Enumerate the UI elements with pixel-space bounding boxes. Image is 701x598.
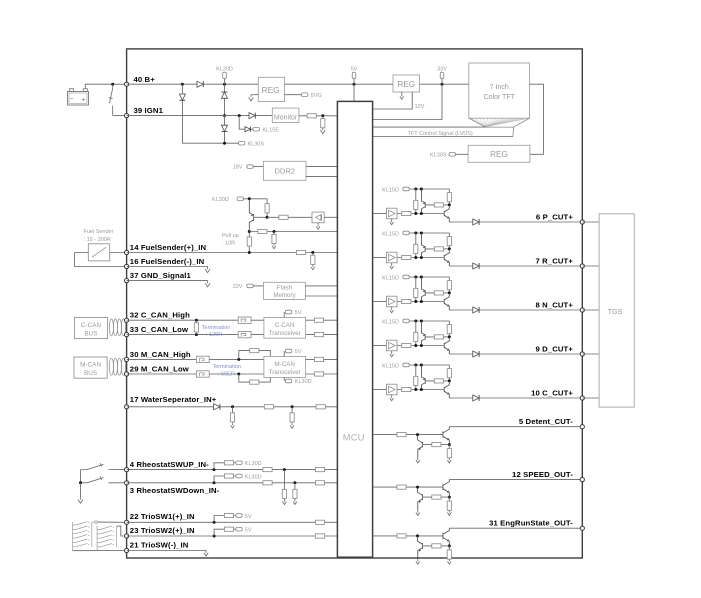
resistor up series bbox=[263, 468, 272, 472]
wire rheostat up row bbox=[127, 469, 338, 471]
svg-text:KL15D: KL15D bbox=[382, 231, 399, 237]
transistor PNP high-side bbox=[421, 365, 425, 390]
resistor base bbox=[434, 247, 443, 251]
wire base row bbox=[416, 345, 444, 347]
ground bbox=[283, 500, 287, 505]
svg-text:C-CAN: C-CAN bbox=[81, 322, 102, 329]
diode output bbox=[473, 263, 479, 269]
svg-text:10 C_CUT+: 10 C_CUT+ bbox=[531, 388, 573, 397]
resistor down to ground bbox=[294, 483, 296, 500]
5V pullup trio1 bbox=[214, 516, 224, 523]
wire to pin bbox=[479, 221, 582, 223]
regulator REG (12V) bbox=[393, 75, 420, 92]
ground bbox=[231, 423, 235, 428]
wire supply rail bbox=[411, 321, 449, 325]
svg-text:5V: 5V bbox=[245, 514, 252, 520]
wire M_CAN_Low bbox=[127, 373, 264, 375]
twisted pair bbox=[109, 358, 113, 375]
resistor series 2 bbox=[316, 405, 325, 409]
wire feedback base bbox=[423, 545, 450, 547]
resistor base bbox=[434, 335, 443, 339]
5V to C-CAN transceiver bbox=[283, 312, 285, 317]
flash memory bbox=[264, 282, 306, 299]
pin 22 TrioSW1+ bbox=[125, 520, 129, 524]
node emitter bbox=[448, 544, 451, 547]
wire pin37 to ground bbox=[127, 280, 208, 282]
svg-text:: 10R: : 10R bbox=[222, 241, 235, 247]
svg-text:KL15D: KL15D bbox=[382, 275, 399, 281]
twisted pair bbox=[109, 319, 113, 336]
wire feedback base bbox=[423, 496, 450, 498]
svg-text:12V: 12V bbox=[415, 104, 425, 110]
wire PNP base bbox=[254, 216, 267, 218]
svg-text:37 GND_Signal1: 37 GND_Signal1 bbox=[130, 271, 192, 280]
wire to KL15E bbox=[239, 116, 245, 130]
diode output bbox=[473, 351, 479, 357]
wire TFT to backlight REG bbox=[530, 84, 544, 154]
resistor feedback base bbox=[432, 443, 441, 447]
wire C_CAN_High bbox=[127, 319, 264, 321]
wire output to pin bbox=[449, 527, 582, 529]
TFT control signal label bbox=[407, 129, 478, 136]
diode KL15E bbox=[245, 127, 251, 132]
wire pin to TGS bbox=[582, 309, 599, 311]
svg-text:8 N_CUT+: 8 N_CUT+ bbox=[536, 300, 574, 309]
diode to KL30S (down) bbox=[179, 94, 185, 100]
resistor bbox=[314, 357, 323, 361]
node pullup to sense bbox=[248, 230, 251, 233]
svg-text:14 FuelSender(+)_IN: 14 FuelSender(+)_IN bbox=[130, 243, 207, 252]
wire KL30S node bbox=[182, 142, 237, 144]
TFT flex connector fan bbox=[472, 119, 528, 127]
diode IGN1 to B+ (up) bbox=[222, 92, 228, 98]
resistor base bbox=[434, 291, 443, 295]
wire C-CAN RX to MCU bbox=[306, 334, 338, 336]
wire pin 21 to ground bbox=[127, 550, 206, 553]
node rail 1 bbox=[414, 320, 417, 323]
svg-text:KL30S: KL30S bbox=[248, 141, 265, 147]
svg-text:C-CAN: C-CAN bbox=[275, 322, 295, 329]
node rail 2 bbox=[420, 188, 423, 191]
svg-text:7 R_CUT+: 7 R_CUT+ bbox=[536, 256, 574, 265]
REG ground bbox=[251, 94, 258, 96]
svg-text:29 M_CAN_Low: 29 M_CAN_Low bbox=[130, 364, 189, 373]
svg-text:TGS: TGS bbox=[608, 309, 623, 316]
node rail 1 bbox=[414, 188, 417, 191]
MCU bbox=[337, 101, 372, 557]
node split termination low bbox=[237, 373, 240, 376]
photocoupler/comparator bbox=[312, 212, 324, 223]
wire PNP base to node B bbox=[425, 292, 449, 294]
node rail 2 bbox=[420, 320, 423, 323]
node base row 1 bbox=[414, 256, 417, 259]
transistor PNP high-side bbox=[421, 233, 425, 258]
wire flash to MCU 1 bbox=[305, 285, 337, 287]
resistor trio2 series bbox=[315, 534, 324, 538]
M-CAN transceiver bbox=[264, 356, 306, 377]
diode IGN1 to KL30S (down) bbox=[222, 125, 228, 131]
svg-text:Color TFT: Color TFT bbox=[484, 94, 516, 101]
svg-text:Fuel Sender: Fuel Sender bbox=[84, 229, 114, 235]
5VG connector bbox=[301, 94, 303, 96]
buffer from MCU bbox=[373, 301, 387, 303]
wire 33V to flash bbox=[253, 285, 263, 287]
wire left bank to pin 22 bbox=[95, 521, 98, 524]
wire DDR2 to MCU 2 bbox=[306, 175, 337, 177]
node B bbox=[448, 291, 451, 294]
diode output bbox=[473, 307, 479, 313]
wire LVDS line 2 bbox=[373, 136, 513, 138]
svg-text:DDR2: DDR2 bbox=[274, 166, 294, 175]
node fuel RC bbox=[311, 251, 314, 254]
node RC1 bbox=[231, 405, 234, 408]
svg-text:33V: 33V bbox=[437, 67, 447, 73]
pin 30 M_CAN_High bbox=[125, 357, 129, 361]
ground bbox=[416, 510, 420, 515]
wire pin16 to ground bbox=[127, 266, 208, 268]
svg-text:5 Detent_CUT-: 5 Detent_CUT- bbox=[519, 417, 573, 426]
wire to pin bbox=[479, 309, 582, 311]
wire base row to photocoupler bbox=[267, 216, 312, 218]
node base row 2 bbox=[420, 344, 423, 347]
resistor pullup lower bbox=[247, 237, 251, 246]
resistor series 1 bbox=[264, 405, 273, 409]
node KL15E branch bbox=[238, 114, 241, 117]
node rail 1 bbox=[414, 364, 417, 367]
wire output to pin bbox=[449, 479, 582, 481]
node B bbox=[448, 335, 451, 338]
wire fuel sender to pin 14 bbox=[110, 252, 127, 254]
resistor base bbox=[434, 203, 443, 207]
node emitter bbox=[448, 443, 451, 446]
node base branch bbox=[416, 433, 419, 436]
buffer ground bbox=[391, 263, 393, 264]
rheostat up switch bbox=[81, 463, 113, 469]
resistor fuel RC to ground bbox=[312, 253, 314, 265]
pin 14 FuelSender+ bbox=[125, 250, 129, 254]
5V pullup trio2 bbox=[214, 529, 224, 536]
svg-text:M-CAN: M-CAN bbox=[275, 361, 295, 368]
node monitor RC bbox=[321, 114, 324, 117]
wire base row bbox=[416, 389, 444, 391]
node base row 2 bbox=[420, 300, 423, 303]
wire supply rail bbox=[411, 277, 449, 281]
buffer from MCU bbox=[373, 389, 387, 391]
wire 5V to MCU top bbox=[353, 84, 355, 101]
resistor emitter to ground bbox=[448, 445, 450, 458]
ECU outer border bbox=[127, 49, 583, 558]
ground bbox=[317, 223, 319, 224]
node on fuel line bbox=[248, 251, 251, 254]
svg-text:: 15 - 300R: : 15 - 300R bbox=[84, 237, 111, 243]
wire base row bbox=[416, 213, 444, 215]
wire photocoupler to MCU bbox=[324, 216, 337, 218]
pin 4 RheostatSWUP bbox=[125, 468, 129, 472]
svg-text:KL30D: KL30D bbox=[245, 461, 262, 467]
svg-text:REG: REG bbox=[490, 150, 508, 159]
resistor base bbox=[434, 379, 443, 383]
low-side cell SPEED_OUT- bbox=[373, 486, 443, 488]
svg-text:Transceiver: Transceiver bbox=[269, 330, 301, 337]
wire trio1 row bbox=[127, 521, 338, 523]
svg-text:22 TrioSW1(+)_IN: 22 TrioSW1(+)_IN bbox=[130, 512, 195, 521]
svg-text:Monitor: Monitor bbox=[274, 114, 298, 121]
resistor divider bbox=[415, 365, 417, 390]
node base branch bbox=[416, 486, 419, 489]
EMI filter C-CAN low bbox=[238, 331, 251, 337]
node base row 2 bbox=[420, 212, 423, 215]
wire supply rail bbox=[411, 233, 449, 237]
svg-text:KL30D: KL30D bbox=[212, 197, 229, 203]
trio switch bank left bbox=[73, 522, 92, 551]
svg-text:Flash: Flash bbox=[277, 285, 293, 292]
svg-text:BUS: BUS bbox=[84, 370, 97, 377]
ground bbox=[311, 265, 315, 270]
resistor divider bbox=[415, 321, 417, 346]
resistor feedback base bbox=[432, 495, 441, 499]
pin 37 GND_Signal1 bbox=[125, 279, 129, 283]
wire 18V to DDR2 bbox=[253, 166, 263, 168]
svg-text:5VG: 5VG bbox=[311, 93, 322, 99]
node rail 2 bbox=[420, 364, 423, 367]
7 inch color TFT display bbox=[469, 63, 530, 118]
KL30D connector bbox=[223, 72, 227, 78]
node base row 1 bbox=[414, 344, 417, 347]
svg-text:Transceiver: Transceiver bbox=[269, 369, 301, 376]
svg-text:16 FuelSender(-)_IN: 16 FuelSender(-)_IN bbox=[130, 257, 205, 266]
wire 12V to MCU bbox=[373, 92, 413, 109]
resistor base row bbox=[279, 215, 288, 219]
wire battery to pin 40 bbox=[85, 84, 126, 89]
resistor fuel line series bbox=[296, 250, 305, 254]
svg-text:M-CAN: M-CAN bbox=[80, 362, 101, 369]
resistor rail to node B bbox=[447, 369, 451, 378]
wire PNP base to node B bbox=[425, 204, 449, 206]
transistor NPN output bbox=[444, 205, 449, 222]
wire pin to TGS bbox=[582, 397, 599, 399]
resistor rail to node B bbox=[447, 237, 451, 246]
svg-text:32 C_CAN_High: 32 C_CAN_High bbox=[130, 311, 190, 320]
5V to M-CAN transceiver bbox=[283, 351, 285, 356]
wire output bbox=[449, 353, 473, 355]
buffer ground bbox=[391, 219, 393, 220]
low-side cell EngRunState_OUT- bbox=[373, 535, 443, 537]
wire output bbox=[449, 309, 473, 311]
buffer ground bbox=[391, 395, 393, 396]
wire right bank to pin 23 bbox=[117, 526, 127, 536]
wire C-CAN TX to MCU bbox=[306, 319, 338, 321]
wire base row bbox=[416, 257, 444, 259]
buffer from MCU bbox=[373, 257, 387, 259]
svg-text:5V: 5V bbox=[295, 310, 302, 316]
node KL30S bbox=[223, 142, 226, 145]
transistor fuel pull-up PNP bbox=[249, 199, 253, 232]
svg-text:KL30D: KL30D bbox=[216, 67, 233, 73]
node 5V on B+ rail bbox=[353, 83, 356, 86]
resistor to ground bbox=[273, 232, 275, 244]
wire branch down to KL30S node bbox=[181, 84, 183, 143]
resistor divider bbox=[415, 277, 417, 302]
node rail 2 bbox=[420, 276, 423, 279]
wire KL30D junction down to IGN1 bbox=[224, 84, 226, 115]
transistor NPN output bbox=[444, 381, 449, 398]
diode IGN1 series bbox=[249, 113, 255, 119]
buffer ground bbox=[391, 351, 393, 352]
svg-text:: 60ER: : 60ER bbox=[218, 372, 235, 378]
ignition switch bbox=[109, 84, 113, 115]
node base bbox=[266, 216, 269, 219]
resistor buffer output bbox=[397, 389, 416, 391]
svg-text:3 RheostatSWDown_IN-: 3 RheostatSWDown_IN- bbox=[130, 486, 220, 495]
regulator REG (backlight) bbox=[468, 145, 530, 162]
transistor NPN feedback bbox=[418, 435, 423, 458]
svg-text:9 D_CUT+: 9 D_CUT+ bbox=[536, 344, 574, 353]
svg-text:KL15E: KL15E bbox=[263, 127, 280, 133]
resistor rail to node B bbox=[447, 325, 451, 334]
svg-text:Memory: Memory bbox=[273, 292, 296, 299]
wire flash to MCU 2 bbox=[305, 295, 337, 297]
pin 39 IGN1 bbox=[125, 114, 129, 118]
node down branch bbox=[213, 481, 216, 484]
pin 29 M_CAN_Low bbox=[125, 372, 129, 376]
resistor buffer output bbox=[397, 345, 416, 347]
node emitter bbox=[448, 496, 451, 499]
svg-text:KL30D: KL30D bbox=[245, 474, 262, 480]
svg-text:: 120R: : 120R bbox=[206, 332, 222, 338]
resistor bbox=[314, 318, 323, 322]
wire supply rail bbox=[411, 189, 449, 193]
node 33V on B+ rail bbox=[441, 83, 444, 86]
node base branch bbox=[416, 534, 419, 537]
ground bbox=[205, 267, 210, 273]
wire trio2 row bbox=[127, 535, 338, 537]
svg-text:6 P_CUT+: 6 P_CUT+ bbox=[536, 212, 573, 221]
wire PNP base to node B bbox=[425, 336, 449, 338]
node trio1 branch bbox=[213, 521, 216, 524]
svg-text:MCU: MCU bbox=[343, 432, 365, 443]
wire KL30S to REG bbox=[455, 153, 468, 155]
wire output bbox=[449, 397, 473, 399]
resistor emitter to ground bbox=[448, 497, 450, 510]
wire pin to TGS bbox=[582, 221, 599, 223]
ground bbox=[447, 458, 451, 463]
resistor emitter to ground bbox=[448, 546, 450, 559]
wire to pin bbox=[479, 397, 582, 399]
ground bbox=[204, 551, 208, 557]
transistor PNP high-side bbox=[421, 277, 425, 302]
svg-text:Pull up: Pull up bbox=[222, 233, 239, 239]
diode output bbox=[473, 219, 479, 225]
transistor NPN output bbox=[444, 249, 449, 266]
wire PNP base to node B bbox=[425, 248, 449, 250]
wire DDR2 to MCU 1 bbox=[306, 166, 337, 168]
wire pullup to fuel line bbox=[248, 232, 250, 253]
buffer ground bbox=[391, 307, 393, 308]
svg-text:30 M_CAN_High: 30 M_CAN_High bbox=[130, 350, 191, 359]
svg-text:23 TrioSW2(+)_IN: 23 TrioSW2(+)_IN bbox=[130, 526, 195, 535]
svg-text:BUS: BUS bbox=[84, 331, 97, 338]
wire switch to pin 3 bbox=[113, 482, 127, 484]
resistor up series 2 bbox=[315, 468, 324, 472]
wire to pin bbox=[479, 353, 582, 355]
node up branch bbox=[213, 468, 216, 471]
wire switch rail bbox=[80, 470, 82, 483]
node B bbox=[448, 247, 451, 250]
svg-text:KL30D: KL30D bbox=[295, 379, 312, 385]
svg-text:KL15D: KL15D bbox=[382, 187, 399, 193]
svg-text:5V: 5V bbox=[295, 349, 302, 355]
resistor from MCU bbox=[397, 433, 406, 437]
wire resistor to base node bbox=[266, 213, 268, 217]
ground bbox=[416, 559, 420, 564]
wire monitor to MCU bbox=[299, 115, 338, 117]
transistor NPN output bbox=[444, 293, 449, 310]
transistor NPN driver bbox=[443, 528, 449, 546]
node rail 1 bbox=[414, 276, 417, 279]
node B bbox=[448, 379, 451, 382]
C-CAN transceiver bbox=[264, 317, 306, 338]
ground bbox=[416, 458, 420, 463]
svg-text:18V: 18V bbox=[233, 165, 243, 171]
KL30D pullup up branch bbox=[214, 463, 224, 470]
wire B+ rail bbox=[127, 83, 393, 85]
svg-text:33 C_CAN_Low: 33 C_CAN_Low bbox=[130, 325, 188, 334]
pin 16 FuelSender- bbox=[125, 264, 129, 268]
wire IGN1 rail bbox=[127, 115, 273, 117]
resistor up to ground bbox=[283, 470, 285, 500]
node base row 1 bbox=[414, 300, 417, 303]
wire LVDS line 1 bbox=[373, 126, 486, 128]
resistor divider bbox=[415, 233, 417, 258]
transistor NPN output bbox=[444, 337, 449, 354]
wire switch to pin 4 bbox=[113, 469, 127, 471]
node rail 2 bbox=[420, 232, 423, 235]
node up RC bbox=[283, 468, 286, 471]
wire pullup branch row bbox=[249, 231, 337, 233]
transistor NPN driver bbox=[443, 427, 449, 445]
resistor down series bbox=[263, 481, 272, 485]
svg-text:33V: 33V bbox=[233, 284, 243, 290]
pin 21 TrioSW- bbox=[125, 548, 129, 552]
diode output bbox=[473, 395, 479, 401]
node diode chain on IGN1 bbox=[223, 114, 226, 117]
node branch RC bbox=[273, 230, 276, 233]
wire switch to pin 39 bbox=[113, 115, 127, 117]
buffer from MCU bbox=[373, 213, 387, 215]
wire base row bbox=[416, 301, 444, 303]
wire pin to TGS bbox=[582, 353, 599, 355]
wire PNP base to node B bbox=[425, 380, 449, 382]
KL30D pullup connector bbox=[236, 198, 238, 200]
node termination low bbox=[195, 333, 198, 336]
EMI filter M-CAN low bbox=[196, 371, 209, 377]
wire 33V to MCU bbox=[373, 84, 442, 119]
resistor buffer output bbox=[397, 213, 416, 215]
resistor branch bbox=[258, 229, 267, 233]
resistor down series 2 bbox=[315, 481, 324, 485]
termination resistor 120R bbox=[195, 320, 197, 334]
resistor feedback base bbox=[432, 544, 441, 548]
svg-text:5V: 5V bbox=[245, 528, 252, 534]
wire output bbox=[449, 221, 473, 223]
monitor IC bbox=[272, 108, 299, 123]
svg-text:21 TrioSW(-)_IN: 21 TrioSW(-)_IN bbox=[130, 540, 189, 549]
node rail 1 bbox=[414, 232, 417, 235]
EMI filter C-CAN high bbox=[238, 317, 251, 323]
pin 3 RheostatSWDown bbox=[125, 481, 129, 485]
node B bbox=[448, 203, 451, 206]
ground bbox=[447, 559, 451, 564]
